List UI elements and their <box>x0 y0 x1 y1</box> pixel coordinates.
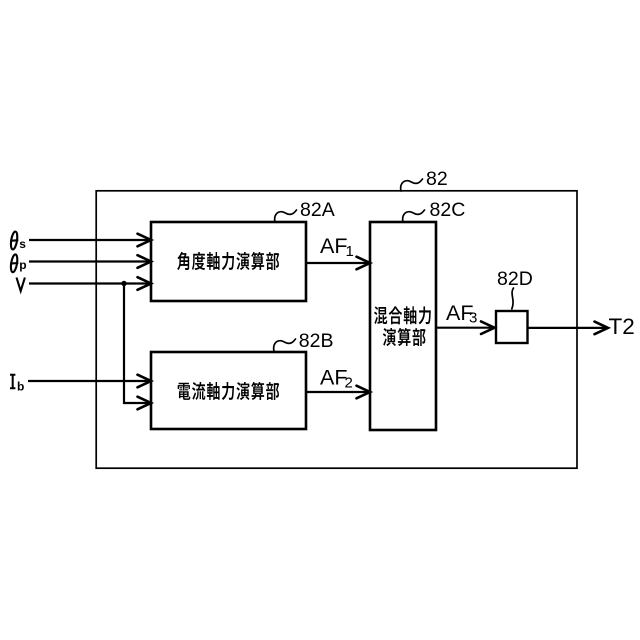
svg-text:3: 3 <box>469 310 477 327</box>
svg-text:s: s <box>19 237 26 251</box>
svg-text:AF: AF <box>320 234 347 258</box>
svg-text:b: b <box>17 380 24 394</box>
svg-text:2: 2 <box>345 375 353 392</box>
svg-text:82A: 82A <box>300 199 335 221</box>
svg-text:T2: T2 <box>609 314 635 339</box>
svg-text:82: 82 <box>426 168 448 190</box>
svg-text:82C: 82C <box>430 199 466 221</box>
svg-text:1: 1 <box>346 243 354 260</box>
svg-text:82B: 82B <box>299 330 334 352</box>
svg-text:82D: 82D <box>497 268 533 290</box>
svg-text:p: p <box>19 258 26 272</box>
svg-text:AF: AF <box>320 366 347 390</box>
